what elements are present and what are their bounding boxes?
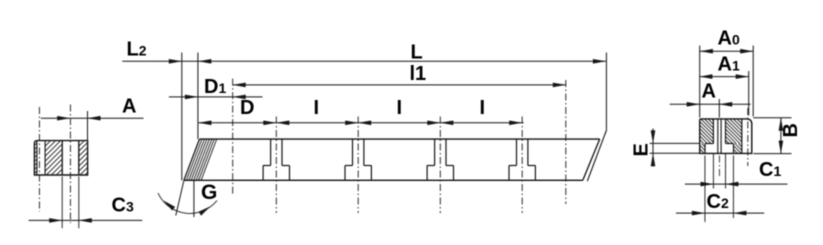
svg-text:A1: A1 — [718, 54, 740, 76]
svg-text:E: E — [631, 143, 653, 156]
svg-text:C3: C3 — [112, 195, 134, 217]
svg-text:A0: A0 — [718, 27, 740, 49]
svg-text:I: I — [480, 97, 486, 119]
svg-text:L2: L2 — [127, 39, 147, 61]
svg-text:A: A — [122, 96, 136, 118]
svg-text:A: A — [702, 81, 716, 103]
svg-text:D: D — [240, 97, 254, 119]
svg-text:l1: l1 — [410, 63, 427, 85]
svg-text:B: B — [780, 123, 802, 137]
svg-text:L: L — [411, 42, 423, 64]
svg-text:D1: D1 — [204, 76, 226, 98]
svg-text:I: I — [314, 97, 320, 119]
svg-text:C1: C1 — [759, 159, 781, 181]
svg-text:C2: C2 — [707, 191, 729, 213]
svg-text:I: I — [397, 97, 403, 119]
svg-text:G: G — [201, 181, 217, 204]
